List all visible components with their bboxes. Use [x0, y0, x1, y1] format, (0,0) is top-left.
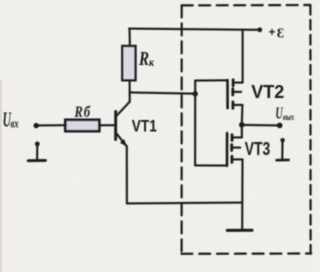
wire emitter run to common	[127, 202, 242, 205]
transistor VT1 base bar	[114, 111, 117, 139]
node +E terminal	[257, 27, 262, 32]
wire gate bus bottom horizontal	[195, 164, 227, 166]
wire base lead	[99, 124, 116, 126]
wire VT3 drain from output node	[241, 125, 243, 137]
transistor VT2 channel segments	[231, 80, 234, 108]
wire input lead	[39, 124, 66, 126]
svg-text:вх: вх	[11, 117, 19, 131]
transistor VT1 emitter stroke	[116, 133, 127, 146]
wire +E top rail	[129, 29, 259, 30]
node output junction	[239, 122, 245, 128]
transistor VT3 gate bar	[226, 133, 229, 166]
dashed block boundary	[181, 5, 311, 254]
terminal input common	[28, 142, 45, 161]
ground common bar	[227, 229, 252, 232]
wire collector to gates	[130, 92, 195, 93]
transistor VT3 leads	[232, 136, 242, 138]
node junction collector-gate	[193, 91, 198, 96]
wire output lead	[242, 124, 279, 127]
node output terminal	[277, 123, 283, 129]
resistor Rb	[65, 120, 99, 131]
node input terminal	[34, 123, 39, 128]
transistor VT3 channel segments	[230, 135, 233, 163]
transistor VT2 gate bar	[226, 80, 229, 108]
svg-text:R: R	[138, 47, 149, 70]
svg-text:вых: вых	[283, 112, 294, 122]
transistor VT1 emitter arrow	[120, 139, 127, 147]
svg-text:VT1: VT1	[132, 117, 157, 135]
wire emitter vertical	[126, 146, 128, 203]
transistor VT2 leads	[233, 82, 242, 84]
svg-text:R: R	[74, 104, 84, 122]
svg-text:VT2: VT2	[251, 82, 284, 102]
svg-text:б: б	[84, 104, 91, 122]
resistor Rk	[122, 46, 135, 80]
svg-text:к: к	[149, 56, 154, 69]
wire VT3 source down	[241, 159, 243, 230]
wire VT2 source to output node	[241, 105, 244, 125]
wire Rk top lead	[128, 29, 130, 46]
wire gate bus left vertical	[194, 81, 196, 166]
transistor VT1 collector stroke	[116, 102, 130, 117]
svg-text:U: U	[275, 105, 283, 123]
svg-text:+: +	[269, 27, 276, 39]
svg-text:VT3: VT3	[245, 138, 271, 159]
wire gate bus top horizontal	[195, 79, 227, 81]
wire Rk bottom lead to collector	[129, 80, 131, 101]
svg-text:Ɛ: Ɛ	[277, 26, 284, 41]
terminal output common	[277, 138, 289, 160]
wire VT2 drain up to rail	[242, 30, 244, 83]
